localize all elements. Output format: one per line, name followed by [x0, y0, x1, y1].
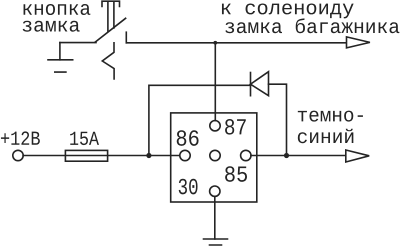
label "замка"	[23, 21, 80, 32]
relay pin 87 circle	[210, 121, 220, 131]
wire down to ground	[59, 43, 61, 60]
push button SB1 actuator	[102, 1, 120, 31]
wire diode branch left	[149, 85, 251, 155]
diode VD1 cathode bar	[250, 73, 252, 96]
wire pin 85 to blue arrow	[251, 155, 346, 157]
junction node B (diode return / blue wire)	[284, 153, 289, 158]
junction node A (switch wire / pin87 drop)	[213, 41, 217, 45]
wire +12V to fuse	[23, 155, 180, 157]
junction node C (fuse line / diode branch)	[146, 153, 151, 158]
label pin "87"	[225, 119, 246, 135]
wire node A down to relay pin 87	[214, 43, 216, 121]
relay pin 86 circle	[180, 150, 190, 160]
diode VD1 triangle	[251, 72, 269, 96]
label "замка багажника"	[225, 18, 399, 33]
label "синий"	[298, 129, 354, 143]
wire pin 30 to ground	[214, 196, 216, 239]
ground (bottom)	[204, 239, 228, 245]
relay K1 body	[171, 113, 257, 202]
label pin "86"	[177, 130, 199, 146]
terminal +12V circle	[13, 150, 23, 160]
switch right contact stub	[125, 32, 127, 43]
label "15А"	[70, 132, 99, 145]
wire diode branch right	[269, 84, 287, 155]
switch blade SB1	[95, 18, 126, 42]
wire switch left contact	[60, 42, 96, 44]
fuse FU1 body	[65, 150, 107, 161]
label pin "85"	[225, 166, 247, 182]
label pin "30"	[179, 179, 198, 195]
wire to solenoid	[126, 42, 346, 44]
relay pin 85 circle	[241, 150, 251, 160]
label "к соленоиду"	[222, 3, 354, 18]
push button spring chevron	[102, 43, 114, 79]
arrow dark blue wire	[346, 150, 369, 162]
ground (left)	[48, 60, 73, 72]
label "кнопка"	[24, 4, 91, 15]
relay pin 30 circle	[210, 186, 220, 196]
label "+12В"	[1, 131, 40, 144]
relay pin common circle	[210, 150, 220, 160]
arrow to solenoid	[347, 37, 370, 48]
label "темно-"	[298, 111, 363, 122]
